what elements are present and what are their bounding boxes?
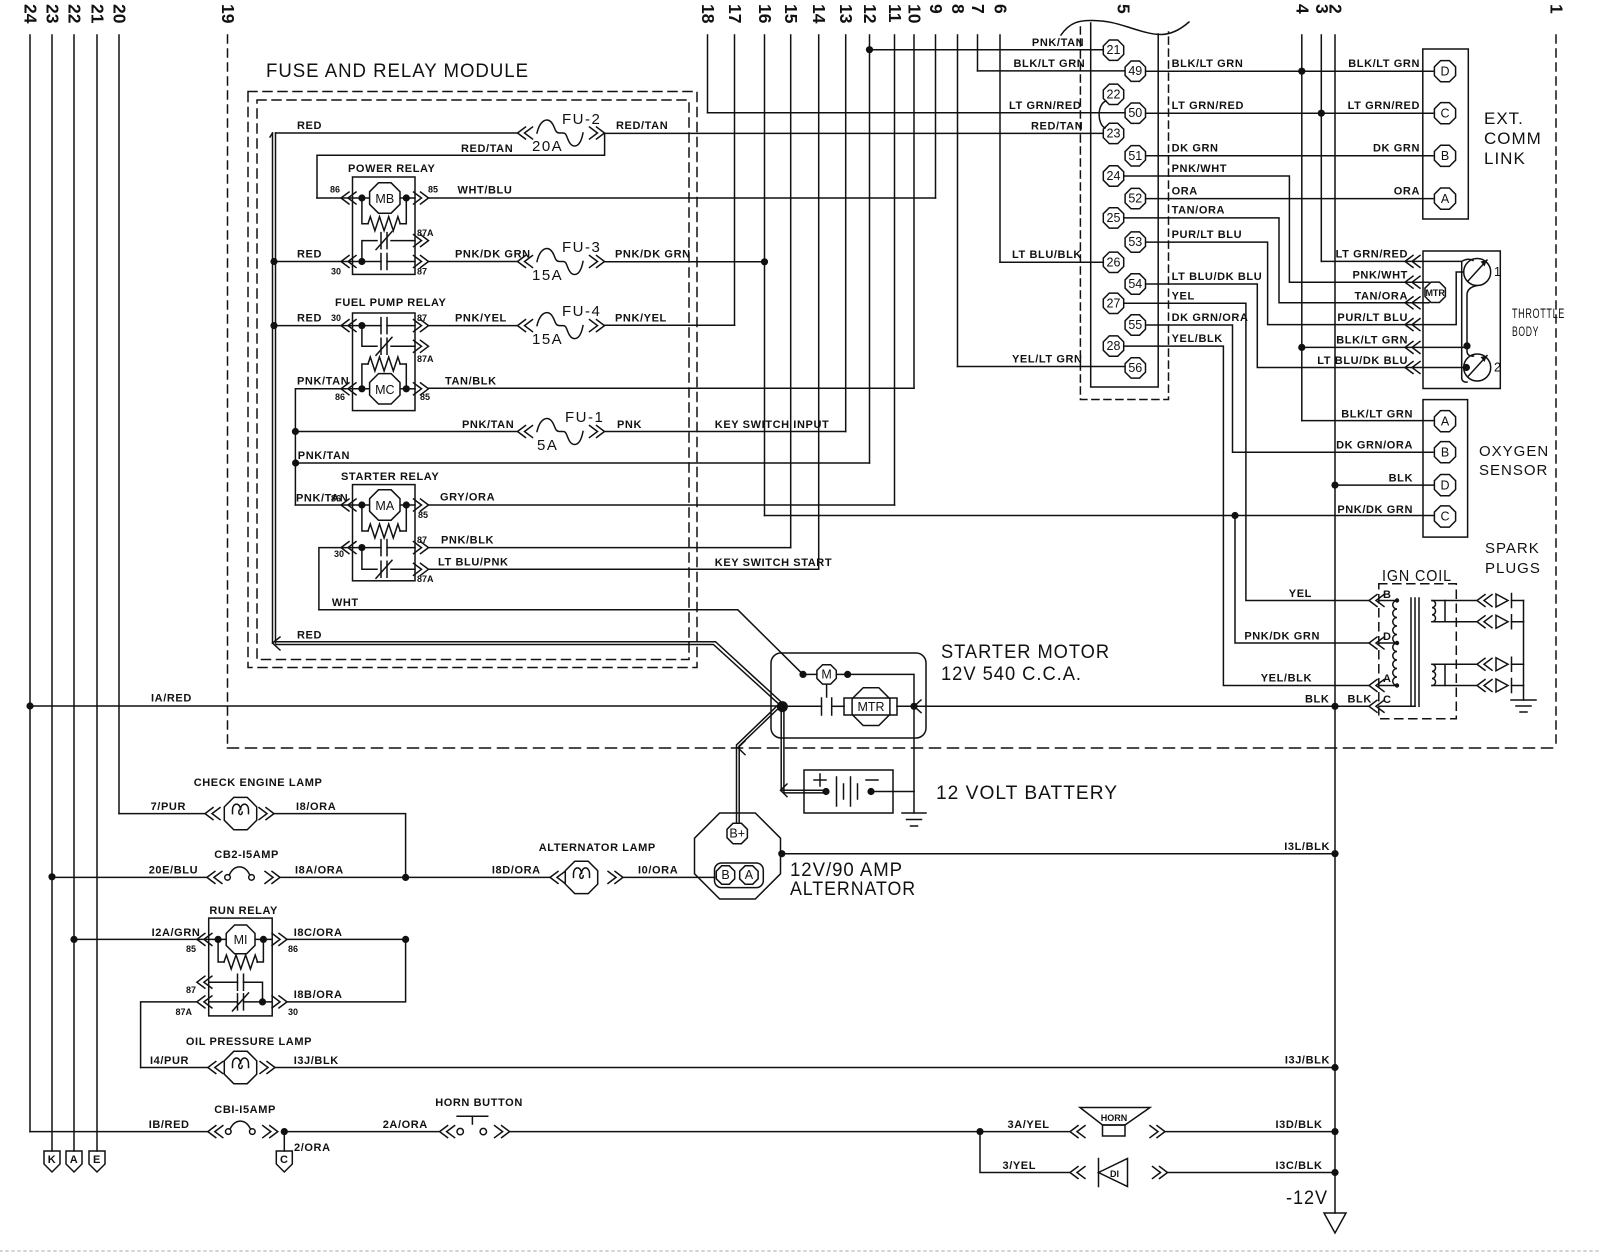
conn C pigtail — [276, 1151, 292, 1172]
svg-text:DK GRN: DK GRN — [1373, 143, 1420, 155]
connector box ext comm link — [1423, 49, 1469, 219]
svg-text:IA/RED: IA/RED — [151, 693, 192, 705]
svg-text:30: 30 — [331, 313, 341, 323]
svg-text:I3L/BLK: I3L/BLK — [1284, 841, 1330, 853]
svg-text:A: A — [70, 1154, 79, 1166]
svg-text:THROTTLE: THROTTLE — [1512, 306, 1565, 321]
svg-text:LINK: LINK — [1484, 149, 1526, 168]
battery plates — [836, 777, 838, 806]
svg-text:12V 540 C.C.A.: 12V 540 C.C.A. — [941, 664, 1082, 685]
svg-text:5A: 5A — [537, 437, 558, 454]
wire BLK/LT GRN node4 to throttle body — [1302, 346, 1465, 348]
svg-text:D: D — [1440, 478, 1449, 492]
svg-text:87A: 87A — [417, 228, 434, 238]
svg-text:D: D — [1440, 64, 1449, 78]
conn D ext comm — [1434, 61, 1455, 82]
conn B ext comm — [1434, 145, 1455, 166]
svg-text:M: M — [821, 667, 831, 681]
throttle position sensor 1 — [1464, 259, 1491, 286]
svg-text:PNK/TAN: PNK/TAN — [298, 450, 350, 462]
svg-text:SPARK: SPARK — [1485, 540, 1540, 557]
alternator body octagon — [695, 813, 781, 899]
ignition coil dashed box — [1379, 584, 1457, 719]
pin 86 run relay / wire 18C/ORA — [272, 933, 287, 945]
svg-text:C: C — [280, 1154, 289, 1166]
svg-text:RED: RED — [297, 313, 322, 325]
svg-text:PNK/YEL: PNK/YEL — [615, 313, 667, 325]
fuse FU-4 15A — [537, 313, 583, 339]
conn B oxygen — [1434, 442, 1455, 463]
svg-text:PLUGS: PLUGS — [1485, 560, 1541, 577]
alternator B+ terminal — [727, 823, 747, 843]
svg-text:PNK/TAN: PNK/TAN — [1032, 37, 1084, 49]
wire 18/ORA check engine to bus — [259, 808, 274, 820]
svg-text:MB: MB — [375, 192, 394, 206]
svg-text:BLK: BLK — [1305, 694, 1329, 706]
svg-text:PNK/WHT: PNK/WHT — [1352, 270, 1408, 282]
wire solenoid return to ground — [848, 674, 914, 791]
op coil MC fuel pump relay — [370, 374, 400, 404]
svg-text:86: 86 — [330, 185, 340, 195]
svg-text:I2A/GRN: I2A/GRN — [152, 927, 201, 939]
ground -12V triangle — [1324, 1213, 1346, 1233]
svg-text:DK GRN/ORA: DK GRN/ORA — [1336, 440, 1413, 452]
svg-text:BLK/LT GRN: BLK/LT GRN — [1336, 335, 1408, 347]
svg-text:LT GRN/RED: LT GRN/RED — [1336, 249, 1408, 261]
svg-text:YEL: YEL — [1172, 291, 1195, 303]
wire battery positive to starter stud (double) — [781, 707, 826, 791]
svg-text:YEL: YEL — [1289, 588, 1312, 600]
ignition coil core — [1410, 598, 1412, 706]
svg-text:TAN/ORA: TAN/ORA — [1172, 205, 1226, 217]
svg-text:I3C/BLK: I3C/BLK — [1276, 1160, 1323, 1172]
svg-text:RED: RED — [297, 630, 322, 642]
svg-text:LT BLU/DK BLU: LT BLU/DK BLU — [1317, 355, 1408, 367]
svg-text:87A: 87A — [417, 354, 434, 364]
svg-text:BODY: BODY — [1512, 324, 1539, 339]
svg-text:86: 86 — [288, 944, 298, 954]
svg-text:4: 4 — [1292, 4, 1312, 14]
pin 85 starter relay / wire GRY/ORA to node 11 — [414, 499, 429, 511]
svg-text:MC: MC — [375, 383, 394, 397]
svg-text:FU-3: FU-3 — [562, 239, 601, 256]
svg-text:30: 30 — [288, 1007, 298, 1017]
svg-text:9: 9 — [926, 4, 946, 14]
op coil MB power relay — [370, 183, 400, 213]
conn C oxygen — [1434, 506, 1455, 527]
svg-text:PUR/LT BLU: PUR/LT BLU — [1337, 312, 1408, 324]
svg-text:24: 24 — [1107, 169, 1121, 183]
svg-text:28: 28 — [1107, 339, 1121, 353]
connector pin 23 — [1103, 123, 1123, 143]
svg-text:BLK/LT GRN: BLK/LT GRN — [1172, 58, 1244, 70]
svg-text:I8B/ORA: I8B/ORA — [294, 989, 343, 1001]
svg-text:BLK/LT GRN: BLK/LT GRN — [1341, 409, 1413, 421]
ground spark plugs — [1511, 699, 1536, 701]
svg-text:6: 6 — [991, 4, 1011, 14]
svg-text:RUN RELAY: RUN RELAY — [209, 905, 278, 917]
svg-text:IGN COIL: IGN COIL — [1382, 568, 1452, 585]
svg-text:STARTER RELAY: STARTER RELAY — [341, 471, 439, 483]
svg-text:WHT: WHT — [332, 597, 359, 609]
lamp oil pressure — [224, 1051, 256, 1083]
svg-text:I8A/ORA: I8A/ORA — [295, 865, 344, 877]
connector pin 26 — [1103, 252, 1123, 272]
svg-text:18: 18 — [698, 4, 718, 24]
svg-text:I3J/BLK: I3J/BLK — [294, 1055, 339, 1067]
svg-text:K: K — [48, 1154, 57, 1166]
svg-text:I0/ORA: I0/ORA — [638, 865, 678, 877]
connector pin 25 — [1103, 208, 1123, 228]
svg-text:PNK/DK GRN: PNK/DK GRN — [1244, 631, 1320, 643]
svg-text:3/YEL: 3/YEL — [1003, 1160, 1037, 1172]
svg-text:15A: 15A — [532, 267, 563, 284]
svg-text:SENSOR: SENSOR — [1479, 462, 1548, 479]
svg-text:ALTERNATOR LAMP: ALTERNATOR LAMP — [539, 842, 656, 854]
svg-text:YEL/LT GRN: YEL/LT GRN — [1012, 354, 1083, 366]
svg-text:YEL/BLK: YEL/BLK — [1261, 673, 1312, 685]
decorative bottom dotted rule — [0, 1250, 1600, 1252]
wire 13C/BLK — [1153, 1167, 1168, 1179]
ignition coil secondary windings — [1432, 601, 1436, 622]
ground battery — [913, 792, 915, 814]
svg-text:RED/TAN: RED/TAN — [1031, 121, 1083, 133]
op coil MI run relay — [226, 925, 255, 954]
svg-text:16: 16 — [755, 4, 775, 24]
svg-text:RED/TAN: RED/TAN — [461, 143, 513, 155]
svg-text:RED/TAN: RED/TAN — [616, 120, 668, 132]
connector pin 22 — [1103, 84, 1123, 104]
svg-text:MI: MI — [234, 933, 248, 947]
svg-text:1: 1 — [1494, 265, 1501, 279]
svg-text:PNK/TAN: PNK/TAN — [297, 376, 349, 388]
svg-text:I3D/BLK: I3D/BLK — [1276, 1119, 1323, 1131]
wire dashed ECM boundary — [228, 747, 1557, 749]
connector pin 21 — [1103, 40, 1123, 60]
connector pin 52 — [1125, 188, 1145, 208]
svg-text:7: 7 — [968, 4, 988, 14]
connector pin 27 — [1103, 293, 1123, 313]
battery 12 volt box — [804, 770, 893, 813]
wire alternator charge lead (double) — [739, 704, 783, 823]
contact 87A starter relay (NC) / wire LT BLU/PNK to node 14 — [362, 548, 377, 570]
spark plug ground bus — [1523, 601, 1525, 701]
svg-text:LT GRN/RED: LT GRN/RED — [1009, 100, 1081, 112]
connector pin 55 — [1125, 315, 1145, 335]
svg-text:KEY SWITCH INPUT: KEY SWITCH INPUT — [715, 419, 830, 431]
conn A ext comm — [1434, 188, 1455, 209]
wire 2/ORA stub to conn C — [281, 1128, 288, 1135]
diode D1 — [1098, 1159, 1100, 1187]
svg-text:27: 27 — [1107, 296, 1121, 310]
svg-text:20: 20 — [110, 4, 130, 24]
svg-text:23: 23 — [1107, 126, 1121, 140]
svg-text:FU-2: FU-2 — [562, 111, 601, 128]
motor MTR throttle — [1425, 282, 1445, 302]
wire to horn branch — [510, 1131, 980, 1133]
contact 87 starter relay (NO) / wire PNK/BLK to node 15 — [358, 544, 365, 551]
svg-text:STARTER MOTOR: STARTER MOTOR — [941, 642, 1110, 663]
svg-text:PNK/DK GRN: PNK/DK GRN — [455, 249, 531, 261]
svg-text:BLK: BLK — [1389, 473, 1413, 485]
svg-text:KEY SWITCH START: KEY SWITCH START — [715, 557, 832, 569]
svg-text:POWER RELAY: POWER RELAY — [348, 163, 436, 175]
wire alternator output 13L/BLK to ground bus — [778, 850, 785, 857]
svg-text:PNK/BLK: PNK/BLK — [441, 535, 494, 547]
svg-text:53: 53 — [1128, 235, 1142, 249]
svg-text:56: 56 — [1128, 361, 1142, 375]
svg-text:2: 2 — [1326, 4, 1346, 14]
svg-text:22: 22 — [1107, 87, 1121, 101]
relay box run relay — [209, 918, 273, 1016]
throttle body box — [1423, 251, 1500, 389]
contact 87A fuel pump relay (NC) — [362, 326, 377, 347]
svg-text:13: 13 — [836, 4, 856, 24]
conn D oxygen — [1434, 475, 1455, 496]
wire PNK/TAN to node 12 — [296, 462, 870, 464]
starter motor box — [771, 653, 926, 738]
svg-text:52: 52 — [1128, 192, 1142, 206]
lamp check engine — [224, 797, 256, 829]
spark plug 1 — [1477, 595, 1492, 607]
svg-text:-12V: -12V — [1286, 1188, 1328, 1209]
svg-text:I8D/ORA: I8D/ORA — [492, 865, 541, 877]
motor MTR starter — [844, 698, 897, 715]
svg-text:12V/90 AMP: 12V/90 AMP — [790, 860, 903, 881]
svg-text:2A/ORA: 2A/ORA — [383, 1119, 428, 1131]
wire PNK/TAN to FU-1 — [292, 428, 299, 435]
conn K pigtail — [44, 1151, 60, 1172]
svg-text:PNK/DK GRN: PNK/DK GRN — [1337, 504, 1413, 516]
svg-text:15: 15 — [781, 4, 801, 24]
connector pin 28 — [1103, 336, 1123, 356]
svg-text:30: 30 — [331, 267, 341, 277]
svg-text:MTR: MTR — [857, 700, 884, 714]
svg-text:A: A — [1441, 192, 1450, 206]
ignition coil primary winding — [1379, 600, 1397, 602]
svg-text:LT BLU/PNK: LT BLU/PNK — [438, 556, 509, 568]
svg-text:OIL PRESSURE LAMP: OIL PRESSURE LAMP — [186, 1036, 312, 1048]
wire 18B/ORA rise to 18C/ORA junction — [287, 939, 406, 1002]
svg-text:I8C/ORA: I8C/ORA — [294, 927, 343, 939]
throttle position sensor 2 — [1464, 354, 1491, 381]
svg-text:IB/RED: IB/RED — [149, 1119, 190, 1131]
oxygen sensor box — [1423, 400, 1468, 537]
svg-text:RED: RED — [297, 120, 322, 132]
svg-text:50: 50 — [1128, 106, 1142, 120]
svg-text:DK GRN: DK GRN — [1172, 143, 1219, 155]
wire 13D/BLK — [1150, 1126, 1165, 1138]
contact 87A power relay (NC) — [362, 241, 377, 262]
fuse FU-3 15A — [537, 249, 583, 275]
svg-text:BLK/LT GRN: BLK/LT GRN — [1014, 58, 1086, 70]
spark plug 4 — [1477, 680, 1492, 692]
svg-text:COMM: COMM — [1484, 129, 1542, 148]
svg-text:FUEL PUMP RELAY: FUEL PUMP RELAY — [335, 297, 447, 309]
fuse FU-1 5A — [537, 419, 583, 445]
junction starter B+ stud — [777, 701, 788, 712]
svg-text:21: 21 — [1107, 43, 1121, 57]
svg-text:54: 54 — [1128, 277, 1142, 291]
svg-text:B: B — [1441, 149, 1449, 163]
conn A oxygen — [1434, 411, 1455, 432]
svg-text:FU-4: FU-4 — [562, 303, 601, 320]
svg-text:DI: DI — [1110, 1169, 1119, 1179]
wire BLK into coil C / core ground — [1379, 705, 1415, 707]
throttle internal wiring — [1414, 261, 1467, 382]
svg-text:BLK: BLK — [1348, 694, 1372, 706]
svg-text:19: 19 — [218, 4, 238, 24]
svg-text:LT GRN/RED: LT GRN/RED — [1172, 100, 1244, 112]
svg-text:HORN: HORN — [1101, 1113, 1128, 1123]
connector pin 50 — [1125, 103, 1145, 123]
svg-text:YEL/BLK: YEL/BLK — [1172, 333, 1223, 345]
svg-text:86: 86 — [331, 494, 341, 504]
svg-text:I8/ORA: I8/ORA — [296, 801, 336, 813]
contact 87 fuel pump relay (NO) — [358, 322, 365, 329]
svg-text:85: 85 — [186, 944, 196, 954]
connector pin 53 — [1125, 232, 1145, 252]
svg-text:25: 25 — [1107, 211, 1121, 225]
svg-text:B: B — [1441, 445, 1449, 459]
contact 87 power relay (NO) — [358, 258, 365, 265]
wire RED supply bus (double) — [272, 133, 274, 643]
svg-text:FU-1: FU-1 — [565, 409, 604, 426]
spark plug 2 — [1477, 616, 1492, 628]
svg-text:86: 86 — [335, 392, 345, 402]
svg-text:I3J/BLK: I3J/BLK — [1285, 1055, 1330, 1067]
wire jumper pin 22 to pin 23 — [1099, 101, 1106, 128]
svg-text:30: 30 — [334, 549, 344, 559]
svg-text:3A/YEL: 3A/YEL — [1008, 1119, 1050, 1131]
svg-text:HORN BUTTON: HORN BUTTON — [435, 1097, 523, 1109]
svg-text:ALTERNATOR: ALTERNATOR — [790, 879, 916, 900]
connector pin 54 — [1125, 274, 1145, 294]
svg-text:PNK/YEL: PNK/YEL — [455, 313, 507, 325]
svg-text:7/PUR: 7/PUR — [151, 801, 186, 813]
svg-text:A: A — [1383, 673, 1392, 685]
svg-text:PNK/DK GRN: PNK/DK GRN — [615, 249, 691, 261]
svg-text:87A: 87A — [175, 1007, 192, 1017]
svg-text:51: 51 — [1128, 149, 1142, 163]
svg-text:11: 11 — [885, 4, 905, 23]
resistor run relay coil shunt — [218, 939, 224, 962]
resistor power relay coil shunt — [362, 198, 368, 224]
svg-text:23: 23 — [43, 4, 63, 24]
fuse and relay module dashed box — [248, 92, 697, 668]
svg-text:DK GRN/ORA: DK GRN/ORA — [1172, 312, 1249, 324]
svg-text:B+: B+ — [729, 827, 745, 841]
svg-text:B: B — [1383, 589, 1392, 601]
svg-text:LT GRN/RED: LT GRN/RED — [1348, 100, 1420, 112]
connector pin 49 — [1125, 61, 1145, 81]
svg-text:10: 10 — [905, 4, 925, 24]
svg-text:LT BLU/DK BLU: LT BLU/DK BLU — [1172, 271, 1263, 283]
svg-text:ORA: ORA — [1394, 186, 1420, 198]
svg-text:20A: 20A — [532, 138, 563, 155]
svg-text:FUSE AND RELAY MODULE: FUSE AND RELAY MODULE — [266, 61, 529, 82]
svg-text:MA: MA — [375, 499, 394, 513]
svg-text:87: 87 — [417, 267, 427, 277]
svg-text:CHECK ENGINE LAMP: CHECK ENGINE LAMP — [194, 777, 323, 789]
svg-text:49: 49 — [1128, 64, 1142, 78]
resistor fuel pump relay coil shunt — [362, 364, 368, 389]
svg-text:OXYGEN: OXYGEN — [1479, 443, 1549, 460]
connector pin 24 — [1103, 166, 1123, 186]
svg-text:12 VOLT BATTERY: 12 VOLT BATTERY — [936, 783, 1118, 804]
connector pin 56 — [1125, 358, 1145, 378]
svg-text:PNK/TAN: PNK/TAN — [462, 419, 514, 431]
resistor starter relay coil shunt — [362, 505, 368, 531]
spark plug 3 — [1477, 658, 1492, 670]
svg-text:12: 12 — [860, 4, 880, 24]
alternator connector pins — [715, 863, 764, 888]
svg-text:PUR/LT BLU: PUR/LT BLU — [1172, 229, 1243, 241]
wire LT GRN/RED node3 to throttle body — [1321, 260, 1413, 262]
conn C ext comm — [1434, 103, 1455, 124]
svg-text:1: 1 — [1547, 4, 1567, 14]
svg-text:A: A — [745, 868, 754, 882]
svg-text:2/ORA: 2/ORA — [294, 1142, 331, 1154]
svg-text:21: 21 — [88, 4, 108, 24]
op coil MA starter relay — [370, 490, 400, 520]
svg-text:2: 2 — [1494, 361, 1501, 375]
svg-text:C: C — [1440, 106, 1449, 120]
svg-text:I4/PUR: I4/PUR — [150, 1055, 189, 1067]
svg-text:85: 85 — [418, 510, 428, 520]
battery plus terminal — [814, 774, 826, 786]
svg-text:15A: 15A — [532, 331, 563, 348]
pin 30 run relay / wire 18B/ORA — [272, 996, 287, 1008]
svg-text:22: 22 — [65, 4, 85, 24]
ECM connector dashed boundary — [1080, 27, 1168, 400]
solenoid coil M starter — [817, 665, 836, 684]
svg-text:87A: 87A — [417, 574, 434, 584]
svg-text:RED: RED — [297, 249, 322, 261]
svg-text:EXT.: EXT. — [1484, 109, 1524, 128]
svg-text:MTR: MTR — [1425, 288, 1445, 298]
svg-text:BLK/LT GRN: BLK/LT GRN — [1348, 58, 1420, 70]
conn A pigtail — [66, 1151, 82, 1172]
svg-text:85: 85 — [428, 185, 438, 195]
svg-text:PNK: PNK — [617, 419, 642, 431]
svg-text:20E/BLU: 20E/BLU — [149, 865, 198, 877]
ECM connector frame — [1091, 23, 1159, 387]
svg-text:5: 5 — [1114, 4, 1134, 14]
connector pin 51 — [1125, 146, 1145, 166]
svg-text:A: A — [1441, 414, 1450, 428]
solenoid contact starter — [826, 685, 828, 697]
svg-text:CBI-I5AMP: CBI-I5AMP — [214, 1104, 276, 1116]
svg-text:E: E — [93, 1154, 101, 1166]
svg-text:TAN/ORA: TAN/ORA — [1355, 291, 1409, 303]
svg-text:14: 14 — [809, 4, 829, 24]
svg-text:CB2-I5AMP: CB2-I5AMP — [214, 849, 279, 861]
wire PNK/DK GRN branch to ignition coil D — [1235, 516, 1369, 644]
wire battery negative to ground — [871, 791, 914, 793]
svg-text:ORA: ORA — [1172, 186, 1198, 198]
svg-text:8: 8 — [948, 4, 968, 14]
battery minus terminal — [866, 779, 878, 781]
horn — [1080, 1108, 1150, 1126]
svg-text:55: 55 — [1128, 318, 1142, 332]
svg-text:PNK/WHT: PNK/WHT — [1172, 163, 1228, 175]
svg-text:LT BLU/BLK: LT BLU/BLK — [1012, 249, 1082, 261]
svg-text:WHT/BLU: WHT/BLU — [458, 185, 513, 197]
svg-text:GRY/ORA: GRY/ORA — [440, 492, 495, 504]
svg-text:17: 17 — [725, 4, 745, 23]
conn E pigtail — [89, 1151, 105, 1172]
